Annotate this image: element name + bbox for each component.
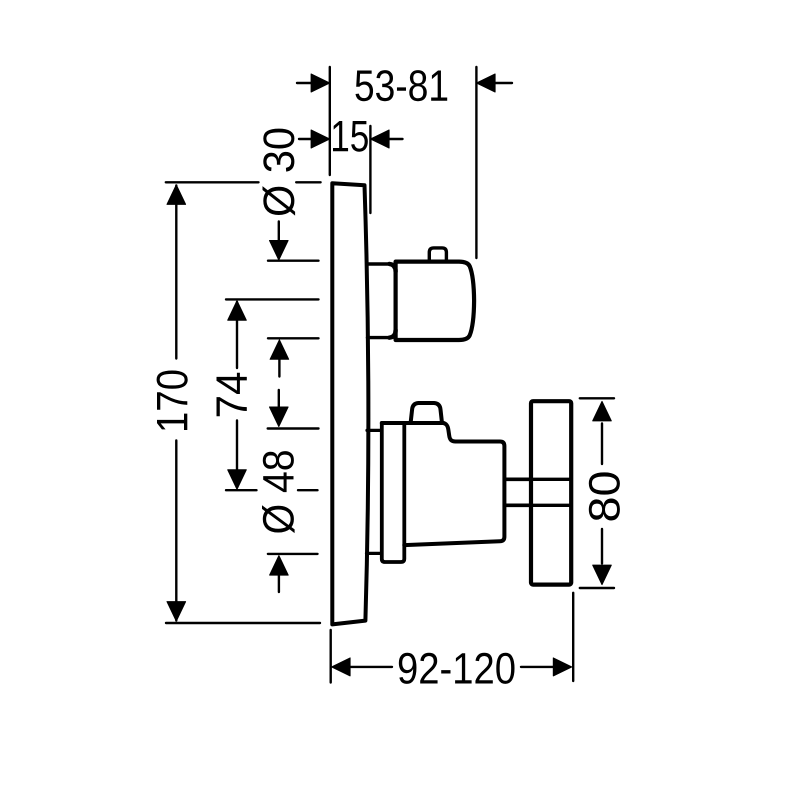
cartridge body <box>404 423 504 545</box>
cross handle horizontal arm lines through bar <box>531 479 571 505</box>
flange / cartridge top line <box>382 421 444 425</box>
upper handle neck top line <box>368 262 391 265</box>
dimension Ø48 upper arrow <box>278 390 280 409</box>
label 170 <box>157 370 188 430</box>
handle stem <box>504 479 531 505</box>
dimension 15 left arrow <box>299 138 312 140</box>
wall plate (escutcheon, side view) <box>332 183 368 624</box>
dimension 80 top arrow <box>593 401 612 421</box>
dimension Ø30 upper arrow <box>278 222 280 243</box>
dimension 74 bottom tick <box>226 489 318 491</box>
label 80 <box>589 472 620 520</box>
dimension 170 top tick <box>166 181 321 183</box>
dimension 80 top tick <box>580 397 614 399</box>
dimension 74 top arrow <box>228 301 247 321</box>
lower mounting strip bottom <box>367 552 382 555</box>
cross handle vertical bar <box>531 401 571 584</box>
dome knob on cartridge <box>411 403 442 423</box>
upper handle neck bottom line <box>368 336 391 339</box>
dimension 15 right arrow <box>388 138 402 140</box>
dimension 74 line <box>236 302 238 488</box>
dimension 74 top tick <box>226 298 319 300</box>
upper knob body (barrel) <box>396 262 475 340</box>
dimension 53-81 extension line right <box>475 67 477 258</box>
dimension 170 bottom tick <box>166 622 320 624</box>
small tab on upper knob <box>429 248 446 261</box>
dimension 170 line <box>175 186 177 621</box>
dimension 80 bottom tick <box>580 587 614 589</box>
label 15 <box>333 121 368 152</box>
dimension 92-120 extension line left <box>330 630 332 683</box>
dimension 53-81 left arrow <box>297 82 312 84</box>
dimension 53-81 right arrow <box>494 82 512 84</box>
lower flange <box>382 423 405 562</box>
label 74 <box>217 373 247 417</box>
label 92-120 <box>399 653 515 684</box>
label Ø30 <box>263 129 296 216</box>
dimension Ø48 bottom tick <box>268 553 318 555</box>
label Ø48 <box>262 451 295 533</box>
dimension 80 bottom arrow <box>593 565 612 585</box>
dimension Ø48 lower arrow <box>270 556 289 576</box>
dimension 170 top arrow <box>167 185 186 205</box>
label 53-81 <box>356 70 448 101</box>
dimension 92-120 right arrow <box>521 666 554 668</box>
neck-to-knob lip top <box>389 264 395 272</box>
dimension Ø30 top tick <box>268 260 319 262</box>
dimension 92-120 left arrow <box>332 658 351 676</box>
dimension 74 bottom arrow <box>228 470 247 490</box>
dimension 170 bottom arrow <box>167 602 186 622</box>
dimension 92-120 extension line right <box>572 593 574 681</box>
dimension 80 line <box>601 424 603 564</box>
dimension 53-81 extension line left <box>329 67 331 175</box>
neck-to-knob lip bottom <box>389 330 395 338</box>
dimension Ø48 top tick <box>268 427 319 429</box>
dimension Ø30 bottom tick <box>268 337 319 339</box>
dimension 15 extension line right <box>369 126 371 213</box>
lower mounting strip top <box>367 429 382 432</box>
dimension Ø30 lower arrow <box>270 340 289 360</box>
